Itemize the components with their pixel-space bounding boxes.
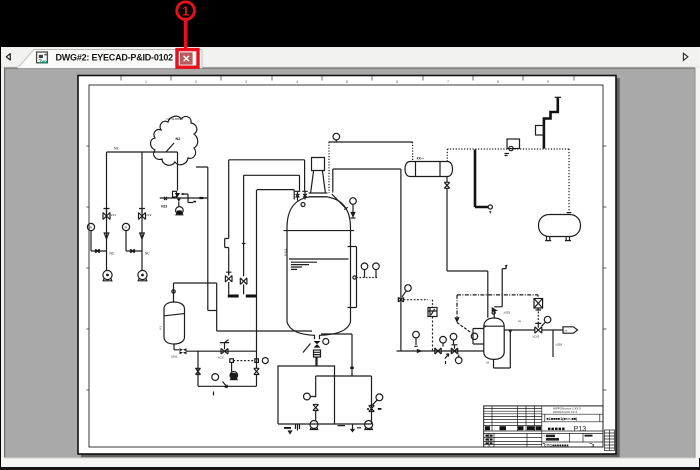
condenser E-1: [405, 162, 453, 177]
recycle riser lower run: [198, 351, 257, 386]
dash-dot elbow to LG bubble: [457, 323, 472, 334]
reducer on branch 1: [104, 233, 109, 239]
svg-text:xCV2: xCV2: [533, 335, 540, 339]
drain bubble below header: [455, 357, 462, 364]
project title box: [542, 414, 603, 422]
reactor overhead line B: [333, 169, 401, 351]
n-route inner horizontal: [257, 189, 294, 191]
signal zigzag with arrow: [183, 194, 194, 203]
svg-text:N2 SUPPLY: N2 SUPPLY: [167, 117, 184, 121]
valve on recycle riser: [254, 368, 259, 374]
solenoid box above valve: [534, 299, 543, 309]
TI bubble right of dome: [350, 198, 357, 205]
PSV bubble near riser: [405, 285, 412, 292]
pump P-1: [103, 270, 112, 279]
PI bubble above control valve: [450, 333, 457, 340]
svg-text:7: 7: [447, 80, 449, 84]
reactor agitator housing: [309, 158, 328, 197]
angle control valve on N2 letdown: [173, 191, 177, 197]
label leader in cloud: [166, 143, 174, 152]
mid-right cells: [542, 433, 603, 442]
pipe N2 header horizontal: [107, 151, 178, 153]
P&ID document icon: [37, 52, 48, 65]
reactor top nozzle N1 with valve: [295, 191, 301, 200]
reactor liquid level line: [289, 258, 349, 260]
PI-1 impulse line: [91, 231, 107, 251]
small arrow near header: [445, 354, 449, 364]
capillary dotted header: [447, 149, 569, 162]
transmitter box on capillary: [507, 139, 520, 149]
pipe second cloud outlet: [196, 167, 208, 311]
tank T-2 feed tick: [350, 367, 353, 369]
n-route outer horizontal: [229, 159, 305, 161]
svg-text:3: 3: [245, 80, 247, 84]
drum V-3 (horizontal receiver): [539, 215, 581, 237]
orifice circle on V1 top line: [172, 290, 175, 293]
E-1 outlet run to V-2: [447, 188, 488, 317]
pipe V1 rundown line: [187, 350, 257, 352]
V-2 weld corner mark: [484, 326, 489, 328]
frame zone ticks right: [603, 146, 606, 390]
pipe elbow to V1 top header: [208, 310, 217, 312]
n-route middle horizontal: [244, 174, 300, 176]
control valve CV-2: [220, 340, 229, 354]
svg-text:2: 2: [195, 80, 197, 84]
pipe N2 outlet header: [160, 197, 208, 199]
jacket TI bubbles: [365, 270, 377, 278]
svg-text:CYC■■■■■■■: CYC■■■■■■■: [544, 444, 569, 448]
control valve on header with actuator: [451, 345, 457, 354]
sight glass circle: [492, 311, 495, 314]
T-2 level bubble: [376, 394, 383, 401]
svg-text:4: 4: [296, 80, 298, 84]
svg-text:6: 6: [396, 80, 398, 84]
blind spade middle leg: [243, 284, 245, 294]
margin ministack table: [605, 430, 615, 451]
svg-text:■■■■■: ■■■■■: [548, 426, 566, 432]
reactor R-1 shell: [287, 197, 351, 339]
V-2 weld line: [484, 325, 504, 327]
valve on bypass leg: [196, 368, 201, 374]
vent line with tick: [502, 265, 507, 269]
PI bubble near valve: [544, 316, 551, 323]
tank T-1 (rectangular): [278, 366, 335, 424]
battery-limit cloud: [151, 116, 198, 165]
drawing border frame: [89, 85, 603, 447]
tank drain marks: [338, 424, 362, 432]
svg-text:xx: xx: [518, 319, 522, 323]
liquid level hatch marks: [291, 262, 317, 269]
vessel V-1 (vertical drum): [164, 302, 185, 344]
tab bar: [1, 47, 699, 68]
FI bubble west of header valves: [413, 331, 420, 338]
vapor line to condenser (solid top run): [329, 141, 413, 143]
svg-text:x315: x315: [504, 311, 511, 315]
level bubble near bypass: [212, 374, 219, 381]
pump P-3 (below N2 letdown valve): [178, 202, 180, 207]
tab (active document tab): [18, 50, 202, 69]
svg-text:N23: N23: [161, 205, 167, 209]
dash-dot drop left: [456, 295, 458, 318]
LG bubble on V-2 left leg: [471, 333, 477, 339]
control valve on V-2 outlet: [535, 323, 542, 333]
svg-text:NC: NC: [145, 252, 150, 256]
reactor top nozzle N2 with valve: [302, 191, 308, 199]
E-1 tube sheet lines: [416, 162, 441, 177]
solenoid signal dashes to valve: [537, 295, 539, 324]
frame zone tick labels top: [145, 80, 549, 84]
T-1 bottom valve with stem: [310, 397, 318, 421]
conduit top tick: [555, 96, 561, 98]
reactor bottom sampler box: [314, 350, 321, 357]
pipe reactor bottom east run: [321, 334, 352, 376]
title block mid rules: [484, 431, 603, 433]
PSV bubble stem: [402, 291, 406, 297]
metering pump below interlock square: [231, 362, 233, 371]
svg-text:x318: x318: [556, 343, 563, 347]
svg-text:8: 8: [497, 80, 499, 84]
instrument air dash-dot header: [457, 294, 538, 296]
interlock link squares and dashed signal: [233, 360, 254, 362]
n-route inner right leg: [293, 190, 295, 200]
svg-text:xV2: xV2: [146, 213, 152, 217]
svg-text:5: 5: [346, 80, 348, 84]
pipe cloud outlet down to control valve: [177, 152, 179, 191]
n-route outer right leg to reactor nozzle: [304, 160, 306, 191]
pipe to off-page flag: [542, 329, 563, 331]
dashed branch to rupture disc: [404, 299, 429, 301]
tab-scroll left arrow: [6, 54, 10, 60]
svg-text:R-101: R-101: [284, 248, 288, 256]
valve on E-1 outlet: [444, 182, 449, 188]
reactor dome spray nozzle (diagonal): [332, 194, 348, 210]
tank T-2 (rectangular): [316, 376, 372, 424]
svg-text:N2: N2: [114, 147, 118, 151]
lower-left table rules: [484, 433, 542, 447]
capillary drop to drum: [568, 149, 570, 213]
tank T-1 feed from reactor: [315, 357, 317, 366]
reactor drain to tank: [316, 357, 318, 366]
pump P-4 under T-1: [310, 421, 318, 429]
svg-text:P13: P13: [574, 424, 587, 433]
svg-text:1: 1: [145, 80, 147, 84]
thick signal conduit upper: [544, 98, 558, 149]
svg-text:PI: PI: [125, 225, 128, 229]
E-1 outlet drop: [446, 177, 448, 183]
annotation red box around close button: [177, 50, 198, 68]
drawing sheet shadow: [81, 78, 620, 457]
svg-text:xV1: xV1: [111, 213, 117, 217]
revision table column rules: [492, 406, 542, 447]
check valve on V-2 inlet: [492, 308, 496, 310]
revision signature blobs: [485, 426, 541, 430]
off-page connector flag: [563, 327, 578, 333]
rupture disc holder box: [428, 308, 437, 317]
V-2 level gauge taps: [473, 329, 484, 345]
vessel V-2 (vertical receiver): [484, 318, 504, 359]
T-1 blind dash: [284, 427, 291, 429]
revision table horizontal rules: [484, 409, 542, 426]
interlock bubble: [262, 358, 268, 364]
svg-text:XX—: XX—: [417, 157, 425, 161]
vapor line dotted riser from reactor: [328, 142, 330, 193]
svg-text:V-1: V-1: [159, 326, 163, 330]
pipe V1 top nozzle: [173, 283, 175, 302]
small bubble under nozzles: [301, 203, 305, 207]
svg-text:DWG#2: EYECAD-P&ID-0102: DWG#2: EYECAD-P&ID-0102: [56, 53, 174, 63]
gate valve on outer leg: [225, 272, 232, 282]
blind spade outer leg: [228, 282, 230, 294]
V-1 weld line: [164, 314, 185, 316]
title block outer: [484, 406, 603, 447]
svg-text:■1■■■■1(■<>-■■): ■1■■■■1(■<>-■■): [547, 417, 579, 421]
T-2 side valve with stem: [369, 400, 378, 412]
jacket TI signal dashes: [356, 277, 377, 279]
annotation red circle with number 1: [177, 2, 195, 20]
conduit end bulb: [488, 205, 492, 209]
flow arrow on header: [417, 350, 421, 353]
reactor bottom outlet valve (closed): [314, 341, 321, 348]
vent line drop: [494, 269, 502, 307]
n-route middle right leg: [299, 175, 301, 191]
jacket bracket right: [348, 247, 357, 308]
svg-text:PID: PID: [40, 59, 48, 65]
pump P-2: [138, 270, 147, 279]
gate valve on branch 1: [103, 209, 110, 220]
TI bubble left: [440, 336, 447, 343]
pipe header branch vertical 1: [106, 152, 108, 271]
frame zone ticks top: [121, 76, 574, 81]
pipe V1 overhead line: [174, 283, 217, 331]
T-1 drain strainer hatch: [296, 424, 300, 431]
svg-text:200XxXxxXX XX X: 200XxXxxXX XX X: [553, 410, 577, 414]
svg-text:9: 9: [547, 80, 549, 84]
bottom instrument bubble: [323, 339, 329, 345]
T-1 level bubble: [304, 393, 311, 400]
pump P-5 under T-2: [365, 421, 373, 429]
junction box on conduit: [536, 126, 545, 136]
svg-text:xCV: xCV: [218, 356, 224, 360]
dashed ladder drop to flare header: [432, 317, 434, 352]
n-route outer left leg with jog: [225, 160, 229, 274]
annotation red leader line: [184, 19, 188, 49]
svg-text:NC: NC: [110, 252, 115, 256]
thick signal conduit lower: [475, 150, 488, 208]
pressure gauge PI-2: [122, 223, 129, 230]
svg-text:PI: PI: [90, 225, 93, 229]
V-2 right nozzle line: [504, 329, 534, 331]
V-2 bottom recirculation loop: [494, 330, 511, 368]
n-route inner left leg (recycle riser): [256, 190, 258, 368]
pipe transfer header to reactor: [217, 330, 312, 332]
vapor line dotted drop to exchanger: [412, 142, 414, 162]
flare/blowdown header line (right): [397, 350, 484, 352]
gate valve on header: [435, 348, 441, 354]
root valve PI-1: [96, 249, 100, 253]
gate valve on middle leg: [240, 278, 247, 285]
pressure gauge PI-1: [87, 223, 94, 230]
svg-text:1: 1: [182, 3, 189, 18]
pipe header branch vertical 2: [141, 152, 143, 271]
drum legs: [545, 237, 571, 241]
small inline valve on outlet header: [164, 197, 167, 200]
tab close button (highlighted): [180, 52, 193, 64]
root valve PI-2: [131, 249, 135, 253]
n-route middle left leg: [242, 175, 246, 276]
PI-2 impulse line: [126, 231, 142, 251]
reactor jacket weld line: [284, 230, 355, 232]
drawing sheet (white paper): [78, 76, 616, 455]
svg-text:N2: N2: [176, 137, 181, 141]
hand lever slash: [303, 344, 311, 353]
gate valve on branch 2: [139, 209, 146, 220]
V-1 bottom outlet: [174, 344, 179, 350]
T-2 blind dash: [378, 408, 382, 410]
inline specialty item on riser: [398, 297, 403, 302]
lower-left tiny marks: [486, 435, 493, 445]
block valve (closed) V1 bottom: [180, 348, 187, 354]
TI bubble on vapor line: [333, 133, 340, 140]
open drain branch: [552, 330, 554, 357]
drain arrow under T-1: [289, 431, 292, 434]
TI dip stem with arrow: [352, 204, 354, 212]
svg-text:x201: x201: [171, 355, 178, 359]
drain arrow near bypass: [214, 382, 228, 396]
jacket utility nozzle: [353, 276, 356, 279]
orifice blind on outlet header: [199, 197, 203, 199]
tab-scroll right arrow: [683, 53, 688, 60]
frame zone ticks left: [86, 146, 89, 390]
reducer on branch 2: [140, 233, 145, 239]
tab title text: [56, 53, 174, 63]
